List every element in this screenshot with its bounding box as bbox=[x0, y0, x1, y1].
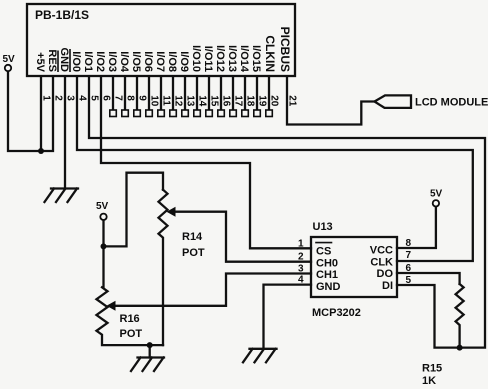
svg-text:CH0: CH0 bbox=[316, 257, 338, 269]
svg-text:I/O10: I/O10 bbox=[190, 45, 202, 72]
svg-text:5V: 5V bbox=[430, 189, 443, 200]
svg-text:+5V: +5V bbox=[34, 52, 46, 73]
svg-text:19: 19 bbox=[257, 95, 268, 107]
svg-text:4: 4 bbox=[298, 275, 304, 286]
svg-text:5V: 5V bbox=[96, 201, 109, 212]
svg-text:PB-1B/1S: PB-1B/1S bbox=[35, 8, 89, 22]
svg-text:VCC: VCC bbox=[370, 245, 393, 257]
svg-text:CLK: CLK bbox=[370, 256, 393, 268]
svg-text:9: 9 bbox=[137, 95, 148, 101]
svg-text:5: 5 bbox=[406, 275, 412, 286]
svg-text:1: 1 bbox=[298, 238, 304, 249]
svg-text:13: 13 bbox=[185, 95, 196, 107]
svg-text:6: 6 bbox=[101, 95, 112, 101]
svg-text:3: 3 bbox=[65, 95, 76, 101]
svg-text:15: 15 bbox=[209, 95, 220, 107]
svg-text:I/O9: I/O9 bbox=[178, 51, 190, 72]
svg-text:RES: RES bbox=[46, 49, 58, 72]
svg-text:2: 2 bbox=[53, 95, 64, 101]
svg-text:I/O15: I/O15 bbox=[250, 45, 262, 72]
svg-text:POT: POT bbox=[182, 247, 205, 259]
svg-text:5: 5 bbox=[89, 95, 100, 101]
svg-text:8: 8 bbox=[125, 95, 136, 101]
svg-text:I/O13: I/O13 bbox=[226, 45, 238, 72]
svg-text:3: 3 bbox=[298, 264, 304, 275]
svg-text:1K: 1K bbox=[422, 375, 436, 387]
svg-text:POT: POT bbox=[120, 328, 143, 340]
svg-text:7: 7 bbox=[406, 250, 412, 261]
svg-text:I/O3: I/O3 bbox=[106, 51, 118, 72]
svg-text:18: 18 bbox=[245, 95, 256, 107]
svg-text:I/O14: I/O14 bbox=[238, 45, 250, 73]
svg-text:DI: DI bbox=[382, 280, 393, 292]
svg-text:2: 2 bbox=[298, 252, 304, 263]
svg-text:CLKIN: CLKIN bbox=[263, 35, 277, 72]
svg-text:I/O1: I/O1 bbox=[82, 51, 94, 72]
svg-text:I/O2: I/O2 bbox=[94, 51, 106, 72]
svg-text:6: 6 bbox=[406, 263, 412, 274]
svg-text:16: 16 bbox=[221, 95, 232, 107]
svg-text:12: 12 bbox=[173, 95, 184, 107]
svg-text:I/O11: I/O11 bbox=[202, 46, 214, 72]
svg-text:GND: GND bbox=[58, 48, 70, 73]
svg-text:4: 4 bbox=[77, 95, 88, 101]
svg-text:CH1: CH1 bbox=[316, 269, 338, 281]
svg-text:7: 7 bbox=[113, 95, 124, 101]
svg-text:1: 1 bbox=[41, 95, 52, 101]
svg-text:R16: R16 bbox=[120, 313, 140, 325]
svg-text:I/O4: I/O4 bbox=[118, 51, 130, 73]
svg-text:17: 17 bbox=[233, 95, 244, 107]
svg-text:I/O5: I/O5 bbox=[130, 51, 142, 72]
svg-text:LCD MODULE: LCD MODULE bbox=[415, 97, 488, 109]
svg-text:21: 21 bbox=[287, 95, 298, 107]
svg-text:PICBUS: PICBUS bbox=[278, 27, 292, 72]
svg-text:I/O0: I/O0 bbox=[70, 51, 82, 72]
svg-text:11: 11 bbox=[161, 95, 172, 106]
svg-text:R14: R14 bbox=[182, 231, 203, 243]
svg-text:R15: R15 bbox=[422, 363, 442, 375]
svg-text:20: 20 bbox=[269, 95, 280, 107]
svg-text:GND: GND bbox=[316, 281, 341, 293]
svg-text:5V: 5V bbox=[3, 54, 16, 65]
svg-text:I/O12: I/O12 bbox=[214, 45, 226, 72]
svg-text:8: 8 bbox=[406, 238, 412, 249]
svg-text:14: 14 bbox=[197, 95, 208, 107]
svg-text:10: 10 bbox=[149, 95, 160, 107]
svg-text:MCP3202: MCP3202 bbox=[312, 307, 361, 319]
svg-text:I/O8: I/O8 bbox=[166, 51, 178, 72]
svg-text:DO: DO bbox=[377, 268, 394, 280]
svg-text:I/O6: I/O6 bbox=[142, 51, 154, 72]
svg-text:CS: CS bbox=[316, 246, 331, 258]
svg-text:U13: U13 bbox=[313, 221, 333, 233]
svg-text:I/O7: I/O7 bbox=[154, 51, 166, 72]
